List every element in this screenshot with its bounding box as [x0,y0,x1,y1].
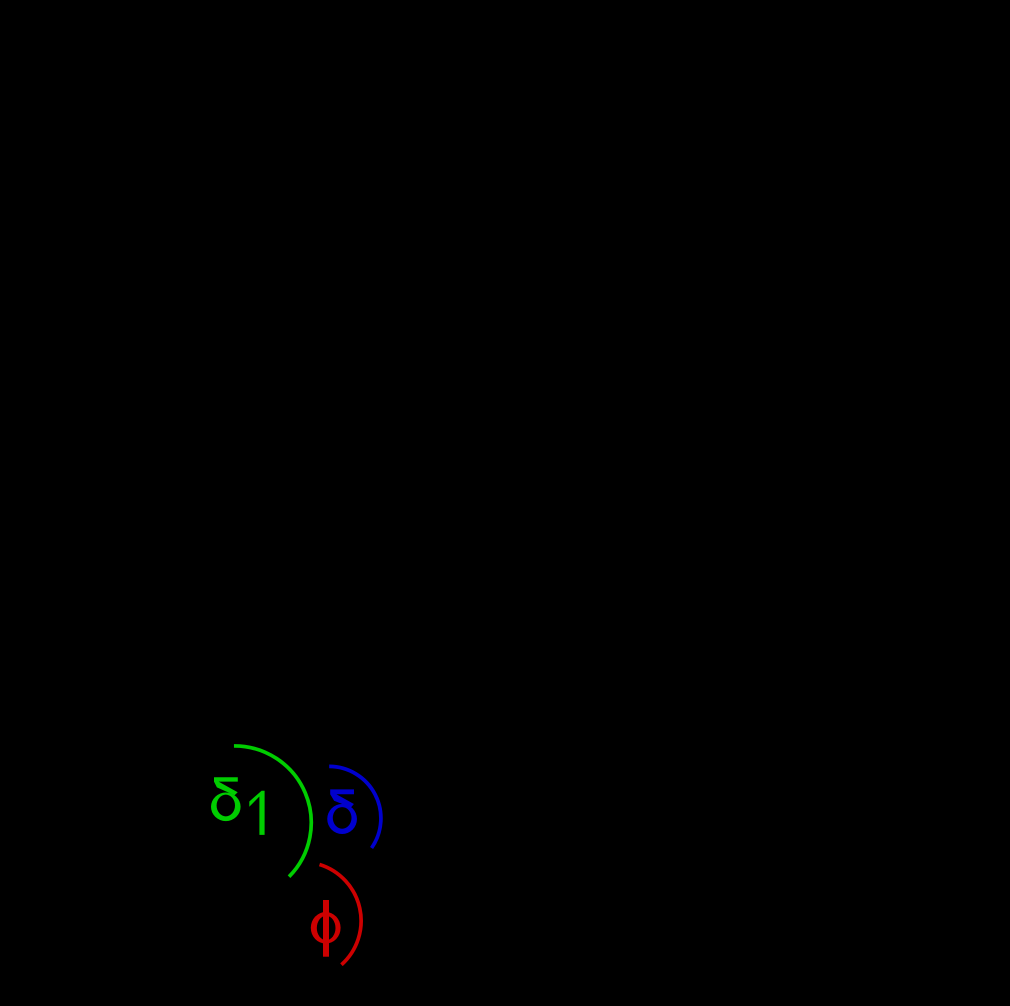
label delta1: delta bowl hole [217,795,235,817]
label delta: delta bowl hole [333,807,352,829]
label phi: ellipse outer (red) [311,912,341,944]
label delta: delta bowl outer (blue) [327,804,357,834]
angle arc phi (red) [320,865,362,965]
label phi: ellipse hole [317,916,336,940]
label phi: vertical bar (red) [323,900,329,957]
label delta1: delta glyph bar+diagonal (green) [214,777,238,795]
angle arc delta (blue) [329,766,381,848]
angle arc delta1 (green) [234,746,311,877]
label delta1: subscript 1 (green) [249,791,264,835]
label delta1: delta bowl outer (green) [211,793,241,822]
label delta: delta glyph bar+diagonal (blue) [330,789,354,807]
